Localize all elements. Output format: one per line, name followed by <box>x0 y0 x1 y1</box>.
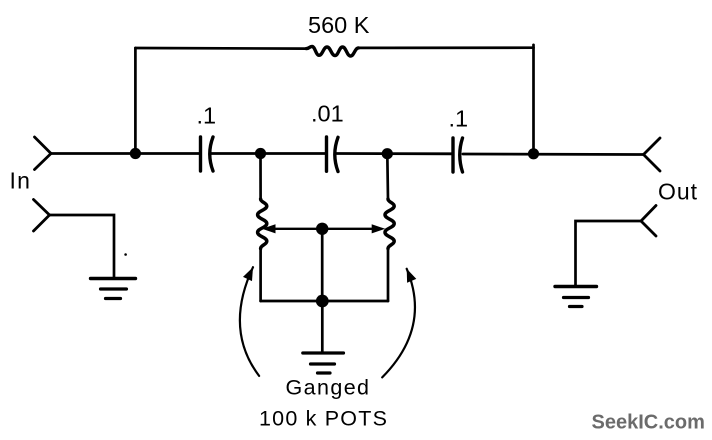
node A (junction dot, feedback tap left) <box>130 148 141 159</box>
wire bottom joining pots <box>261 300 388 303</box>
wire node E down to ground <box>321 301 324 353</box>
svg-text:SeekIC.com: SeekIC.com <box>592 412 705 434</box>
wire C2 to C3 <box>337 152 454 155</box>
ganged arrow left (curved) <box>240 267 259 376</box>
wire Out2 to right ground <box>576 221 642 286</box>
node B (junction dot above left pot) <box>255 148 266 159</box>
resistor R1 560 K <box>307 47 359 57</box>
wiper arrowhead right <box>372 224 386 233</box>
connector Out (top output terminal) <box>644 138 661 171</box>
potentiometer P1 (left, vertical) <box>258 199 267 249</box>
svg-text:.1: .1 <box>449 106 469 132</box>
connector In2 (lower input terminal) <box>34 200 50 232</box>
wire pot P2 bottom <box>387 249 390 302</box>
svg-text:.1: .1 <box>197 103 217 129</box>
node C (junction dot above right pot) <box>382 148 393 159</box>
speck artifact <box>124 253 127 256</box>
svg-text:100 k POTS: 100 k POTS <box>259 407 388 431</box>
connector Out2 (lower output terminal) <box>641 206 656 237</box>
ganged arrow right (curved) <box>382 269 415 378</box>
ganged arrowhead left <box>243 267 253 281</box>
ganged arrowhead right <box>407 269 417 283</box>
ground G2 (right) <box>555 287 597 307</box>
wire node B down to pot P1 <box>259 154 262 200</box>
wire top feedback left segment <box>135 47 306 50</box>
svg-text:In: In <box>10 168 32 194</box>
svg-text:.01: .01 <box>311 101 344 127</box>
ground G1 (left) <box>91 279 136 299</box>
wiper arrowhead left <box>262 224 276 233</box>
wire feedback down to node D <box>532 45 535 154</box>
capacitor C2 .01 <box>327 137 339 172</box>
node W (wiper junction dot) <box>316 223 328 235</box>
capacitor C1 .1 <box>201 137 214 171</box>
wire node C down to pot P2 <box>386 154 389 199</box>
svg-text:560 K: 560 K <box>308 12 370 38</box>
wire input to C1 <box>51 152 201 155</box>
wire In2 to left ground <box>50 215 115 278</box>
capacitor C3 .1 <box>453 138 463 172</box>
svg-text:Out: Out <box>658 179 698 205</box>
wire pot P1 bottom <box>259 249 262 302</box>
wire node A up to feedback line <box>134 48 137 154</box>
node E (bottom junction dot) <box>316 295 329 308</box>
connector In (top input terminal) <box>35 137 52 170</box>
wire C1 to C2 <box>212 152 327 155</box>
wire wiper down to bottom wire <box>321 229 324 301</box>
node D (junction dot feedback tap right) <box>528 148 539 159</box>
wiper link line (ganged wipers) <box>273 228 374 230</box>
potentiometer P2 (right, vertical) <box>385 199 394 249</box>
wire top feedback right segment <box>359 46 534 49</box>
ground G3 (center) <box>303 353 344 373</box>
svg-text:Ganged: Ganged <box>286 376 371 400</box>
wire C3 to output <box>463 153 644 156</box>
